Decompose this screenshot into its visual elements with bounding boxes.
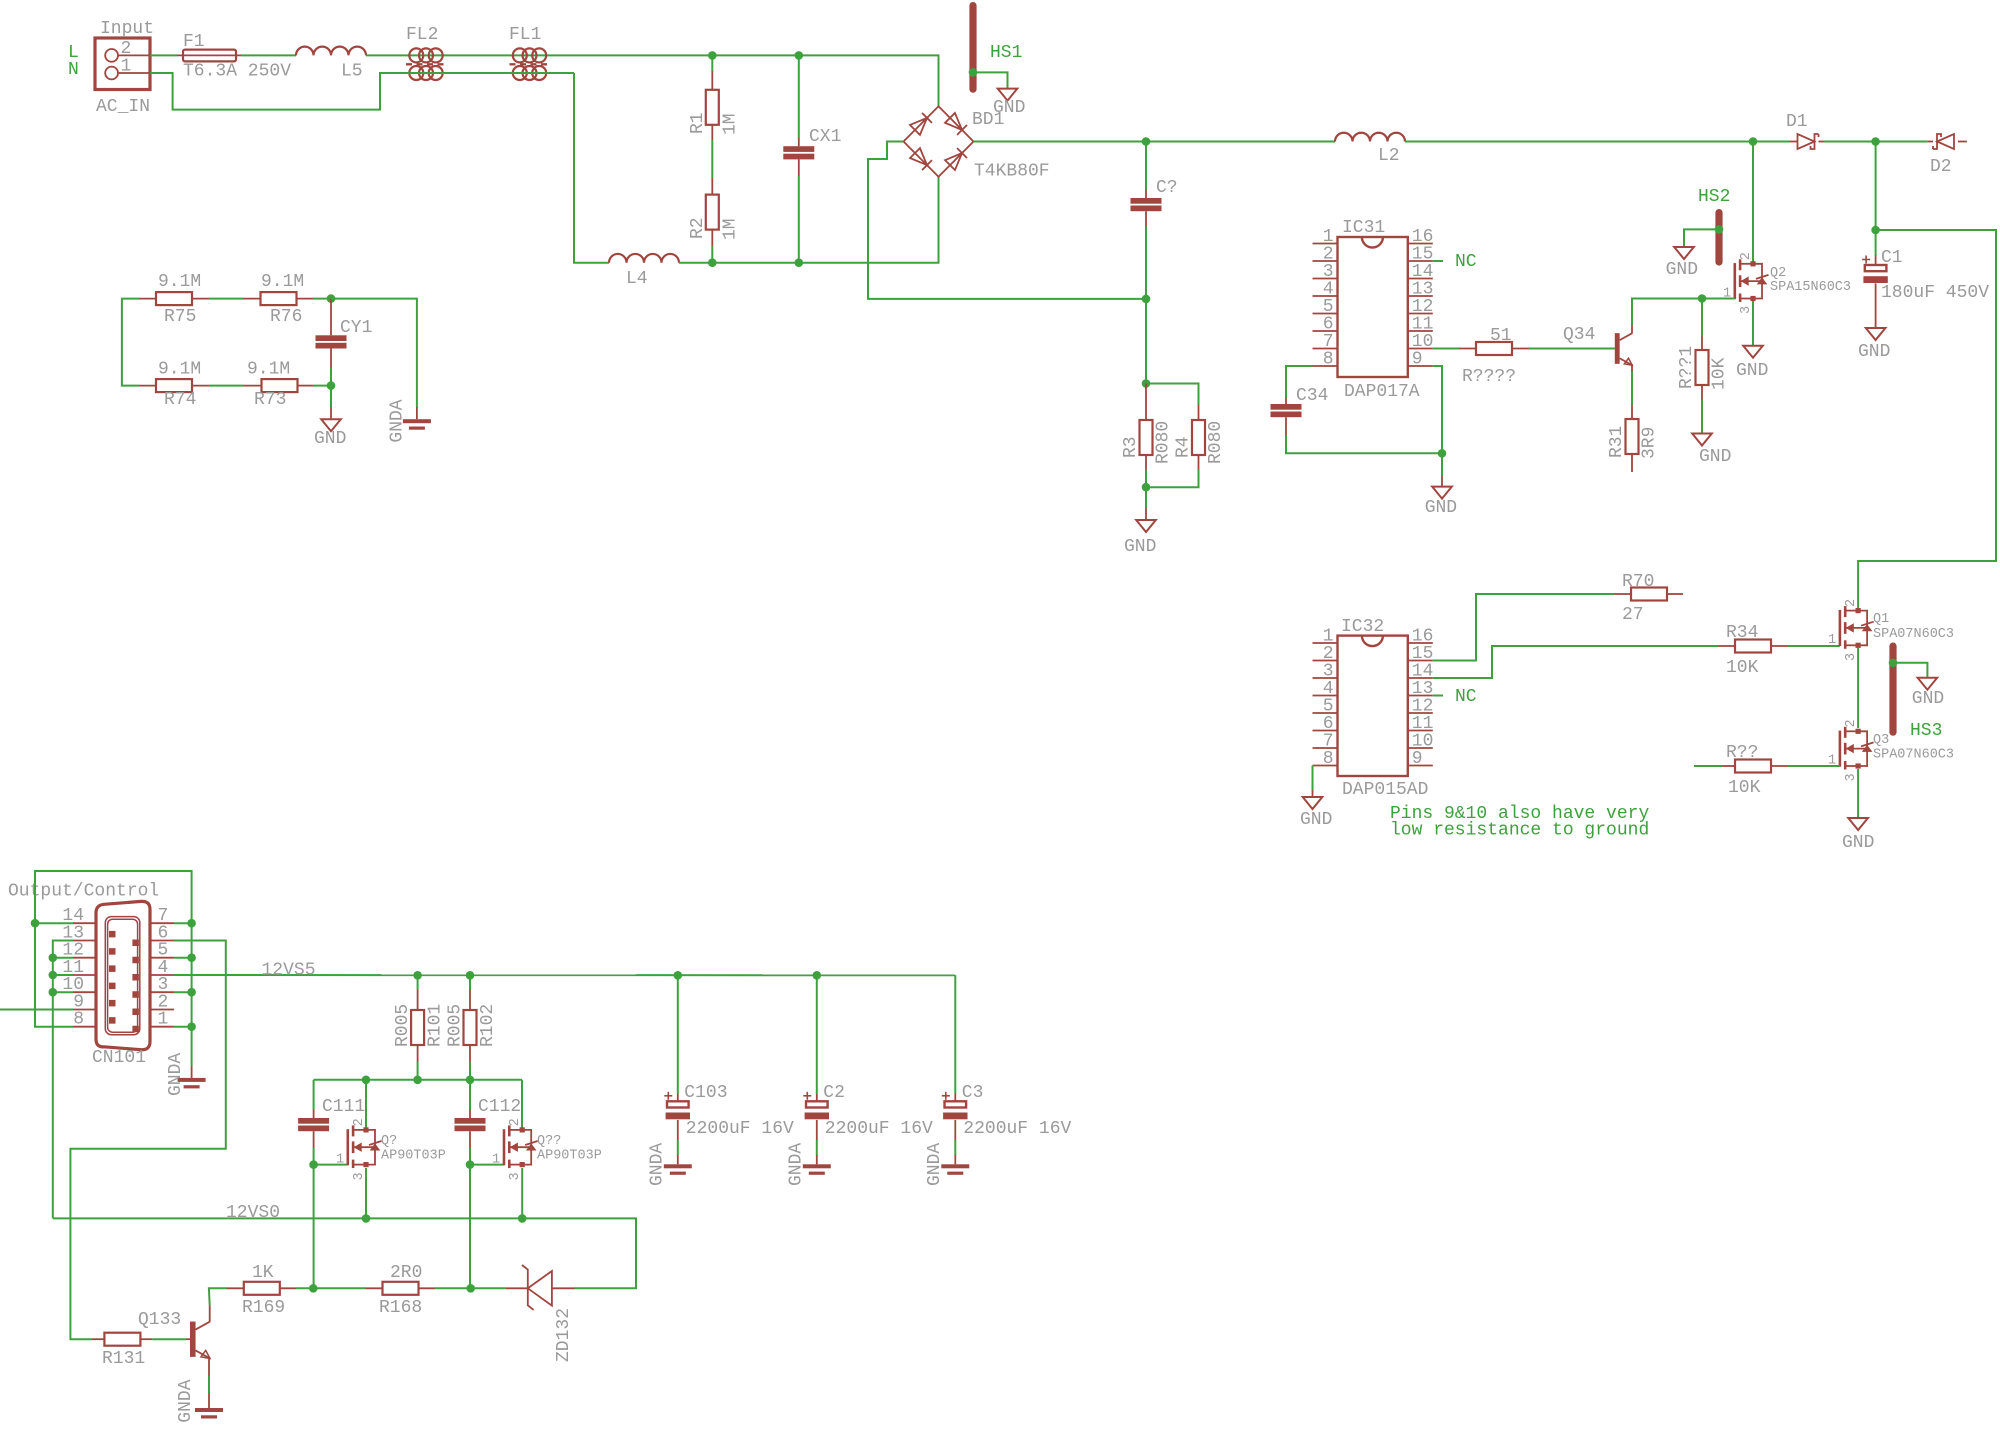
wire 12VS0 net xyxy=(53,1218,636,1288)
wire gate to Q?? xyxy=(470,1164,504,1166)
svg-text:R31: R31 xyxy=(1607,426,1627,458)
svg-text:2200uF 16V: 2200uF 16V xyxy=(963,1119,1071,1139)
wire pin8 to frame xyxy=(35,923,73,1026)
svg-text:3: 3 xyxy=(1844,653,1859,661)
connector CN101 (Output/Control) xyxy=(92,901,150,1068)
mosfet Q?? AP90T03P xyxy=(492,1118,602,1180)
IC32 pin 5 xyxy=(1313,712,1338,714)
svg-text:ZD132: ZD132 xyxy=(554,1308,574,1362)
wire IC32 pin13 NC stub xyxy=(1433,695,1443,697)
IC32 pin 2 xyxy=(1313,660,1338,662)
resistor R70 27 xyxy=(1614,572,1683,625)
ground GND (IC32 pin8) xyxy=(1300,790,1332,830)
svg-text:2200uF 16V: 2200uF 16V xyxy=(825,1119,933,1139)
CN101 pin 1 xyxy=(150,1026,174,1028)
IC32 pin 10 xyxy=(1408,747,1433,749)
junction R101 top xyxy=(413,971,422,980)
svg-text:1: 1 xyxy=(158,1010,169,1030)
junction pin3 xyxy=(187,988,196,997)
wire C111 to gate junction xyxy=(313,1148,315,1165)
wire R34 to Q1 gate xyxy=(1788,645,1840,647)
wire pin9 to left edge xyxy=(0,1009,73,1011)
wire IC31 pin8 to C34 xyxy=(1286,366,1313,398)
wire pin5 to right rail xyxy=(174,957,192,959)
wire drain net C111 to Q?? xyxy=(314,1079,522,1081)
wire R169 to R168 xyxy=(296,1287,366,1289)
wire pin7 to right rail xyxy=(174,922,192,924)
svg-text:GND: GND xyxy=(1842,833,1874,853)
wire R73 to CY1 bottom junction xyxy=(313,385,331,387)
CN101 pin 7 xyxy=(150,922,174,924)
junction R3 R4 bottom xyxy=(1142,483,1151,492)
wire right rail to GNDA xyxy=(191,1027,193,1066)
wire pin13 rail to 12VS0 xyxy=(53,941,73,1219)
wire 12VS5 to C103 xyxy=(677,975,679,1094)
wire D1 junction down to Q2 drain xyxy=(1752,142,1754,264)
resistor R??1 10K xyxy=(1677,336,1730,400)
wire R3 R4 bottoms join xyxy=(1145,470,1147,487)
svg-text:IC31: IC31 xyxy=(1342,218,1385,238)
IC32 pin 11 xyxy=(1408,730,1433,732)
wire pin12 tap xyxy=(53,957,73,959)
wire 12VS5 to C3 xyxy=(954,975,956,1094)
svg-text:GND: GND xyxy=(314,429,346,449)
svg-text:SPA15N60C3: SPA15N60C3 xyxy=(1770,280,1851,295)
resistor R???? 51 xyxy=(1459,326,1529,387)
junction pin10 xyxy=(49,988,58,997)
svg-text:GND: GND xyxy=(1699,447,1731,467)
IC31 pin 7 xyxy=(1313,348,1338,350)
inductor L4 xyxy=(609,254,679,289)
resistor R2 1M xyxy=(688,178,741,246)
resistor R101 R005 xyxy=(393,975,446,1062)
junction C103 top xyxy=(674,971,683,980)
IC32 pin 1 xyxy=(1313,642,1338,644)
wire IC32 pin8 to GND xyxy=(1312,766,1314,791)
svg-text:C3: C3 xyxy=(962,1083,984,1103)
svg-text:C103: C103 xyxy=(684,1083,727,1103)
CN101 pin 12 xyxy=(73,957,96,959)
wire IC32 pin15 to R70 xyxy=(1433,594,1614,661)
svg-text:GND: GND xyxy=(993,98,1025,118)
wire junction to GND xyxy=(330,386,332,407)
resistor R34 10K xyxy=(1718,623,1788,678)
resistor R102 R005 xyxy=(446,975,499,1062)
junction pin11 xyxy=(49,971,58,980)
resistor R4 R080 xyxy=(1174,405,1227,470)
wire Q? gate net down to R169 R168 junction xyxy=(313,1165,315,1289)
junction C? bottom xyxy=(1142,295,1151,304)
svg-text:Q??: Q?? xyxy=(537,1134,561,1149)
IC32 pin 9 xyxy=(1408,765,1433,767)
junction Q? gate xyxy=(309,1160,318,1169)
mosfet Q2 SPA15N60C3 xyxy=(1723,252,1851,314)
wire bridge right vertex to L2 xyxy=(974,141,1336,143)
ground GND (C1) xyxy=(1858,328,1890,362)
IC32 pin 7 xyxy=(1313,747,1338,749)
svg-text:R????: R???? xyxy=(1462,367,1516,387)
wire to C? xyxy=(1145,142,1147,191)
diode D1 (schottky) xyxy=(1786,112,1824,149)
ground GND (HS3) xyxy=(1912,678,1944,709)
junction C1 top xyxy=(1871,226,1880,235)
heatsink HS1 xyxy=(969,2,976,93)
svg-text:9: 9 xyxy=(1412,749,1423,769)
svg-text:R131: R131 xyxy=(102,1349,145,1369)
IC IC32 DAP015AD xyxy=(1338,617,1429,800)
ground GND (HS2) xyxy=(1666,247,1698,280)
svg-text:FL1: FL1 xyxy=(509,25,541,45)
CN101 pin 2 xyxy=(150,1009,174,1011)
svg-text:C111: C111 xyxy=(322,1097,365,1117)
svg-text:3: 3 xyxy=(1844,773,1859,781)
svg-text:T6.3A 250V: T6.3A 250V xyxy=(183,62,291,82)
IC32 pin 16 xyxy=(1408,642,1433,644)
svg-text:9.1M: 9.1M xyxy=(261,272,304,292)
svg-text:L5: L5 xyxy=(341,62,363,82)
wire to C111 xyxy=(313,1080,315,1110)
wire to CX1 xyxy=(798,55,800,138)
wire to R4 top xyxy=(1146,384,1199,406)
IC31 pin 4 xyxy=(1313,295,1338,297)
svg-text:R74: R74 xyxy=(164,390,196,410)
IC31 pin 11 xyxy=(1408,330,1433,332)
svg-text:R080: R080 xyxy=(1206,421,1226,464)
wire Q3 source to GND xyxy=(1857,769,1859,818)
svg-text:D2: D2 xyxy=(1930,157,1952,177)
svg-text:R??1: R??1 xyxy=(1677,346,1697,389)
junction gate net xyxy=(1698,294,1707,303)
svg-text:Q133: Q133 xyxy=(138,1310,181,1330)
junction top CX1 xyxy=(795,51,804,60)
wire pin11 tap xyxy=(53,974,73,976)
junction on HS1 xyxy=(969,68,978,77)
IC31 pin 3 xyxy=(1313,278,1338,280)
wire Q2 source to GND xyxy=(1752,301,1754,346)
svg-text:Input: Input xyxy=(100,19,154,39)
svg-text:R2: R2 xyxy=(688,217,708,239)
ground GNDA (C3) xyxy=(925,1143,969,1186)
wire down to R3 R4 xyxy=(1145,299,1147,384)
svg-text:D1: D1 xyxy=(1786,112,1808,132)
svg-text:HS1: HS1 xyxy=(990,43,1022,63)
svg-text:2: 2 xyxy=(1844,599,1859,607)
wire pin1 to right rail xyxy=(174,1026,192,1028)
capacitor CX1 xyxy=(783,127,841,176)
wire bridge left vertex to lower net xyxy=(868,142,1146,299)
junction D1 D2 xyxy=(1871,137,1880,146)
wire pin3 to right rail xyxy=(174,991,192,993)
IC IC31 DAP017A xyxy=(1338,218,1420,402)
junction on HS2 xyxy=(1715,225,1724,234)
svg-text:C34: C34 xyxy=(1296,386,1328,406)
svg-text:SPA07N60C3: SPA07N60C3 xyxy=(1873,748,1954,763)
svg-text:2: 2 xyxy=(1739,252,1754,260)
mosfet Q? AP90T03P xyxy=(336,1118,446,1180)
svg-text:27: 27 xyxy=(1622,605,1644,625)
wire R2 to bottom net xyxy=(711,246,713,263)
svg-text:N: N xyxy=(68,60,79,80)
CN101 pin 10 xyxy=(73,991,96,993)
svg-text:9.1M: 9.1M xyxy=(247,360,290,380)
wire R75 to R76 xyxy=(209,298,243,300)
junction C? top xyxy=(1142,137,1151,146)
IC32 pin 4 xyxy=(1313,695,1338,697)
svg-text:GNDA: GNDA xyxy=(648,1143,668,1186)
inductor L2 xyxy=(1335,133,1405,166)
svg-text:Q3: Q3 xyxy=(1873,733,1889,748)
svg-text:9.1M: 9.1M xyxy=(158,360,201,380)
svg-text:CX1: CX1 xyxy=(809,127,841,147)
wire IC31 pin15 NC stub xyxy=(1433,260,1443,262)
resistor R1 1M xyxy=(688,71,741,140)
wire Q? source to 12VS0 xyxy=(365,1168,367,1218)
svg-text:CY1: CY1 xyxy=(340,318,372,338)
junction R101 bottom xyxy=(413,1076,422,1085)
resistor R?? 10K xyxy=(1694,743,1788,798)
wire IC31 pin10 to R???? xyxy=(1433,348,1459,350)
wire junction to C1 xyxy=(1875,230,1877,255)
transistor Q34 xyxy=(1563,325,1632,365)
junction R168 ZD132 xyxy=(466,1284,475,1293)
svg-text:GNDA: GNDA xyxy=(176,1379,196,1422)
wire Q?? drain xyxy=(521,1080,523,1130)
svg-text:R70: R70 xyxy=(1622,572,1654,592)
junction R102 C112 xyxy=(466,1076,475,1085)
svg-text:1: 1 xyxy=(492,1153,500,1168)
svg-text:AC_IN: AC_IN xyxy=(96,97,150,117)
wire IC31 pin9 down xyxy=(1433,366,1442,453)
svg-text:C2: C2 xyxy=(823,1083,845,1103)
connector AC_IN (Input) xyxy=(95,19,154,117)
svg-text:8: 8 xyxy=(73,1010,84,1030)
junction pin1 xyxy=(187,1022,196,1031)
ground GND (C34) xyxy=(1425,476,1457,518)
svg-text:R168: R168 xyxy=(379,1298,422,1318)
capacitor C112 xyxy=(455,1097,522,1148)
heatsink HS2 xyxy=(1715,209,1722,266)
svg-text:R??: R?? xyxy=(1726,743,1758,763)
capacitor C34 xyxy=(1271,386,1329,435)
IC32 pin 15 xyxy=(1408,660,1433,662)
wire Q34 collector up to gate net xyxy=(1632,299,1735,326)
wire R??1 to GND xyxy=(1701,400,1703,434)
wire F1 to L5 xyxy=(241,54,296,56)
wire HS1 to GND xyxy=(973,72,1008,88)
ground GND (CY1) xyxy=(314,407,346,449)
svg-text:C112: C112 xyxy=(478,1097,521,1117)
IC31 pin 8 xyxy=(1313,365,1338,367)
IC32 pin 6 xyxy=(1313,730,1338,732)
svg-text:R005: R005 xyxy=(393,1004,413,1047)
wire HS2 to GND xyxy=(1684,229,1719,247)
IC31 pin 9 xyxy=(1408,365,1433,367)
svg-text:DAP015AD: DAP015AD xyxy=(1342,780,1428,800)
svg-text:8: 8 xyxy=(1323,749,1334,769)
wire R???? to Q34 base xyxy=(1529,348,1615,350)
svg-text:3: 3 xyxy=(508,1172,523,1180)
wire 12VS5 net xyxy=(174,974,955,976)
wire C3 to GNDA xyxy=(954,1140,956,1155)
wire R74 to R73 xyxy=(209,385,244,387)
fuse F1 xyxy=(177,32,291,82)
svg-text:12VS5: 12VS5 xyxy=(262,961,316,981)
svg-text:Output/Control: Output/Control xyxy=(8,882,159,902)
wire 12VS5 to C2 xyxy=(816,975,818,1094)
inductor L5 xyxy=(296,47,366,82)
capacitor C1 180uF 450V xyxy=(1862,248,1989,303)
mosfet Q1 SPA07N60C3 xyxy=(1828,599,1954,661)
svg-text:51: 51 xyxy=(1490,326,1512,346)
svg-text:R3: R3 xyxy=(1121,436,1141,458)
wire FL1 bottom down to L4 xyxy=(574,73,609,263)
wire right rail to Q1 drain xyxy=(1858,230,1996,611)
svg-text:NC: NC xyxy=(1455,252,1477,272)
wire Q? drain xyxy=(365,1080,367,1130)
wire D2 junction down to C1 xyxy=(1875,142,1877,231)
capacitor C111 xyxy=(298,1097,365,1148)
svg-text:2200uF 16V: 2200uF 16V xyxy=(686,1119,794,1139)
svg-text:2: 2 xyxy=(508,1118,523,1126)
wire C112 to gate junction xyxy=(469,1148,471,1165)
junction CY1 bottom xyxy=(327,381,336,390)
svg-text:Q?: Q? xyxy=(381,1134,397,1149)
svg-text:R005: R005 xyxy=(446,1004,466,1047)
svg-text:10K: 10K xyxy=(1710,357,1730,390)
junction C2 top xyxy=(813,971,822,980)
svg-text:R080: R080 xyxy=(1154,421,1174,464)
junction bottom CX1 xyxy=(795,258,804,267)
svg-text:1: 1 xyxy=(336,1153,344,1168)
svg-text:AP90T03P: AP90T03P xyxy=(381,1149,446,1164)
CN101 pin 14 xyxy=(73,922,96,924)
junction pin7 xyxy=(187,919,196,928)
svg-text:R102: R102 xyxy=(478,1004,498,1047)
transistor Q133 xyxy=(138,1310,210,1358)
svg-text:1: 1 xyxy=(1828,633,1836,648)
svg-text:GND: GND xyxy=(1736,361,1768,381)
wire L5 to FL2 to FL1 to bridge xyxy=(366,55,939,106)
filter FL1 xyxy=(509,25,550,80)
wire CY1 junction xyxy=(330,368,332,386)
svg-text:GND: GND xyxy=(1425,498,1457,518)
wire junction to GND xyxy=(1441,453,1443,476)
svg-text:Q34: Q34 xyxy=(1563,325,1595,345)
svg-text:R76: R76 xyxy=(270,307,302,327)
wire CN101 frame net xyxy=(35,871,192,1027)
resistor R73 9.1M xyxy=(244,360,314,411)
wire R168 to ZD132 xyxy=(435,1287,506,1289)
svg-text:R73: R73 xyxy=(254,390,286,410)
wire C? to junction xyxy=(1145,226,1147,299)
ground GNDA (C103) xyxy=(648,1143,692,1186)
diode D2 (schottky, reversed) xyxy=(1928,134,1967,177)
svg-text:10K: 10K xyxy=(1726,658,1759,678)
svg-text:GNDA: GNDA xyxy=(925,1143,945,1186)
junction pin12 xyxy=(49,953,58,962)
bridge rectifier BD1 T4KB80F xyxy=(904,106,1050,181)
ground GND (R3 R4) xyxy=(1124,508,1156,557)
junction pin9 C34 xyxy=(1438,449,1447,458)
resistor R168 2R0 xyxy=(366,1263,436,1318)
wire N: connector to FL2 bottom xyxy=(150,73,574,110)
junction Q?? source 12VS0 xyxy=(518,1214,527,1223)
ground GND (HS1) xyxy=(993,89,1025,118)
svg-text:3: 3 xyxy=(1739,306,1754,314)
wire Q34 emitter to R31 xyxy=(1631,370,1633,405)
svg-text:2R0: 2R0 xyxy=(390,1263,422,1283)
junction on HS3 xyxy=(1889,659,1898,668)
svg-text:C?: C? xyxy=(1156,178,1178,198)
wire C1 to GND xyxy=(1875,300,1877,328)
svg-text:CN101: CN101 xyxy=(92,1048,146,1068)
wire R131 to Q133 base xyxy=(152,1338,186,1340)
svg-text:1M: 1M xyxy=(721,113,741,135)
wire to R1 xyxy=(711,55,713,71)
junction bottom R2 xyxy=(708,258,717,267)
svg-text:3: 3 xyxy=(352,1172,367,1180)
wire Q?? gate net down to R168 ZD132 junction xyxy=(469,1165,471,1289)
svg-text:AP90T03P: AP90T03P xyxy=(537,1149,602,1164)
CN101 pin 11 xyxy=(73,974,96,976)
CN101 pin 6 xyxy=(150,940,174,942)
junction R3 R4 top xyxy=(1142,379,1151,388)
resistor R131 xyxy=(92,1333,152,1369)
junction pin5 xyxy=(187,953,196,962)
svg-text:GND: GND xyxy=(1124,537,1156,557)
junction top R1 xyxy=(708,51,717,60)
wire R76 to CY1 junction xyxy=(313,298,331,300)
svg-text:DAP017A: DAP017A xyxy=(1344,382,1420,402)
svg-text:FL2: FL2 xyxy=(406,25,438,45)
svg-text:1: 1 xyxy=(121,57,132,77)
capacitor C3 2200uF 16V xyxy=(942,1083,1072,1140)
svg-text:R34: R34 xyxy=(1726,623,1758,643)
svg-text:Q1: Q1 xyxy=(1873,612,1889,627)
svg-text:1M: 1M xyxy=(721,218,741,240)
CN101 pin 3 xyxy=(150,991,174,993)
svg-text:GND: GND xyxy=(1666,260,1698,280)
IC32 pin 3 xyxy=(1313,677,1338,679)
svg-text:R169: R169 xyxy=(242,1298,285,1318)
IC31 pin 16 xyxy=(1408,243,1433,245)
svg-text:NC: NC xyxy=(1455,687,1477,707)
IC31 pin 6 xyxy=(1313,330,1338,332)
IC31 pin 13 xyxy=(1408,295,1433,297)
svg-text:R75: R75 xyxy=(164,307,196,327)
svg-text:F1: F1 xyxy=(183,32,205,52)
wire pin14 to frame xyxy=(35,922,73,924)
wire left rail R75 R74 xyxy=(122,299,139,386)
wire C103 to GNDA xyxy=(677,1140,679,1155)
capacitor C103 2200uF 16V xyxy=(664,1083,794,1140)
svg-text:180uF 450V: 180uF 450V xyxy=(1881,283,1989,303)
svg-text:T4KB80F: T4KB80F xyxy=(974,162,1050,182)
wire pin6 to Q133 rail xyxy=(70,941,225,1340)
svg-text:GNDA: GNDA xyxy=(787,1143,807,1186)
IC31 pin 2 xyxy=(1313,260,1338,262)
resistor R74 9.1M xyxy=(139,360,209,411)
wire to GND xyxy=(1145,487,1147,508)
svg-text:low resistance to ground: low resistance to ground xyxy=(1390,821,1649,841)
svg-text:GND: GND xyxy=(1912,689,1944,709)
ground GND (Q2) xyxy=(1736,346,1768,381)
svg-text:GND: GND xyxy=(1300,810,1332,830)
capacitor CY1 xyxy=(316,299,373,368)
wire gate to Q? xyxy=(314,1164,348,1166)
ground GNDA (C2) xyxy=(787,1143,831,1186)
svg-text:2: 2 xyxy=(352,1118,367,1126)
